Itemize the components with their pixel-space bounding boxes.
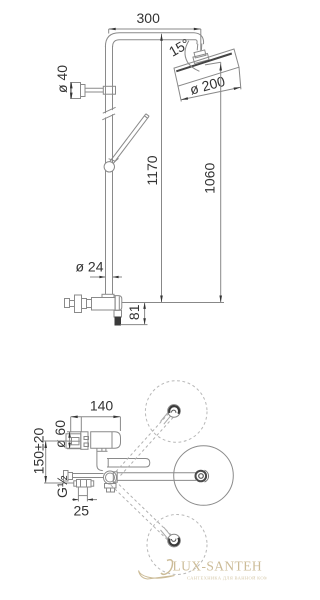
handle step2	[82, 299, 87, 309]
head rim line	[205, 62, 221, 65]
head stub wall right	[200, 44, 202, 51]
top arc outer	[105, 33, 203, 47]
dim 140 arrow left	[71, 416, 78, 419]
dim 1060 arrow top	[219, 64, 222, 71]
dim 25 line right	[87, 499, 97, 501]
dim o200 ext right	[239, 67, 241, 89]
spout arm bottom	[117, 479, 196, 481]
knob o40 arm bottom	[85, 91, 103, 93]
dim 25 arrow right	[87, 498, 93, 500]
head lower inner arc	[171, 539, 175, 542]
head upper inner arc	[171, 410, 175, 413]
dim o200 ext left	[178, 86, 181, 101]
dim 140 line	[71, 416, 121, 418]
dim 300 ext left	[108, 29, 110, 34]
dim 25 ext right	[86, 496, 88, 502]
big circle overhead shower plan	[174, 446, 234, 506]
swivel outer circle	[104, 471, 117, 484]
plan bolt bottom	[84, 443, 89, 447]
handle knob	[65, 299, 70, 308]
svg-text:81: 81	[126, 304, 142, 320]
plan knob inner	[72, 438, 80, 445]
spout arm top	[117, 472, 196, 474]
svg-text:300: 300	[137, 10, 161, 26]
dim 81 arrow down	[143, 318, 146, 324]
swivel inner circle	[106, 473, 115, 482]
plan body end line	[111, 432, 113, 448]
diverter knob o40	[71, 83, 116, 99]
svg-text:150±20: 150±20	[30, 427, 46, 474]
top arc inner	[113, 40, 198, 47]
dim 150pm20 line	[45, 441, 47, 483]
hub nut arc	[205, 470, 209, 482]
pipe break slash 2	[102, 114, 115, 120]
dim 81 bottom ref line	[121, 324, 148, 326]
wand wall right	[113, 116, 149, 164]
swivel mount square left	[107, 488, 111, 492]
arm collar	[113, 472, 117, 483]
svg-text:САНТЕХНИКА ДЛЯ ВАННОЙ КОМНАТЫ: САНТЕХНИКА ДЛЯ ВАННОЙ КОМНАТЫ	[187, 576, 267, 581]
slider block on riser	[103, 86, 115, 94]
holder circle	[104, 162, 114, 172]
mixer body	[92, 298, 116, 311]
dim 300 arrow left	[109, 28, 116, 31]
lower mixer upper assembly	[66, 432, 121, 471]
mixer threaded nipple	[115, 317, 121, 325]
rod bottom	[73, 477, 104, 479]
head ball nut	[193, 53, 209, 63]
dim 1060 arrow bottom	[219, 296, 222, 303]
dim o200 line	[181, 87, 241, 99]
wand cylinder left cap	[107, 459, 109, 468]
dim o60 line	[69, 432, 71, 449]
dim 150pm20 arrow down	[44, 476, 47, 483]
dim o40 arrow up	[70, 82, 73, 88]
mixer collar	[102, 294, 114, 297]
wand ferrule cap	[109, 159, 116, 162]
dim 300	[109, 29, 201, 52]
dim 300 line	[109, 28, 201, 30]
watermark	[139, 559, 283, 581]
plan knob centerline	[67, 440, 80, 442]
dim 300 ext right / head centerline	[200, 29, 202, 52]
svg-text:ø 40: ø 40	[54, 65, 70, 93]
dim 150pm20 ext top	[44, 440, 72, 442]
dim 81 line	[144, 303, 146, 325]
lower union wing right	[91, 481, 94, 486]
knob o40 arm top	[85, 87, 103, 89]
dashed circle lower	[147, 515, 207, 575]
plan neck top line	[97, 450, 108, 452]
lower knob step	[68, 473, 73, 480]
dim 140 arrow right	[113, 416, 120, 419]
dim o24 arrow left	[99, 276, 105, 279]
dashed wand upper line1	[116, 413, 170, 472]
dim o40 line	[70, 82, 72, 98]
wire riser pipe left wall	[105, 46, 107, 294]
head upper wand tip wall 2	[164, 415, 171, 424]
head stub collar	[194, 50, 206, 58]
dim o24 arrow right	[113, 276, 119, 279]
handle flange	[75, 295, 82, 313]
dim 140 ext left	[70, 417, 72, 433]
head lower wand tip wall 2	[164, 527, 171, 536]
svg-text:G½: G½	[54, 475, 70, 498]
lower union wing left	[74, 481, 77, 486]
plan stub left	[101, 448, 103, 451]
hub outer ring	[196, 471, 207, 482]
rod top	[73, 473, 104, 475]
dim o200 arrow right	[234, 87, 241, 90]
dim 300 arrow right	[194, 28, 201, 31]
plan bolt top	[84, 437, 89, 440]
mixer nut below elbow	[114, 310, 122, 317]
hand shower wand	[104, 114, 149, 172]
dashed wand upper line2	[121, 417, 175, 476]
lower union nut	[77, 480, 92, 488]
dashed wand lower line2	[115, 481, 172, 536]
dim o60 ext top	[67, 431, 81, 433]
dim o60 arrow down	[68, 443, 71, 449]
mixer elbow	[114, 296, 122, 311]
svg-text:1170: 1170	[144, 155, 160, 185]
hub inner	[199, 474, 204, 479]
mixer upper view	[65, 294, 122, 325]
plan stub right	[105, 448, 107, 451]
15 degree arc	[185, 41, 199, 72]
svg-text:140: 140	[90, 398, 114, 414]
plan flange	[81, 432, 88, 450]
pipe break slash 1	[103, 107, 116, 113]
lower union square	[78, 487, 87, 496]
handle step1	[87, 300, 92, 308]
dim o24 line left	[90, 276, 105, 278]
svg-text:LUX-SANTEH: LUX-SANTEH	[173, 559, 263, 574]
head upper wand tip wall 1	[161, 412, 169, 421]
dim o60 ext bottom	[67, 448, 81, 450]
mixer elbow inner line	[114, 296, 116, 311]
swivel mount block	[105, 484, 117, 489]
shower head group	[174, 44, 239, 87]
dim o60 arrow up	[68, 431, 71, 437]
dashed wand lower line1	[111, 485, 168, 540]
head lower dark ring	[169, 538, 179, 546]
svg-text:1060: 1060	[202, 163, 218, 194]
lower union and swivel area	[64, 459, 197, 496]
handle stem	[70, 301, 75, 307]
dashed circle upper	[145, 381, 207, 443]
dim 150pm20 arrow up	[44, 441, 47, 448]
lower union nut inner line 2	[86, 480, 88, 488]
dim o40 arrow down	[70, 93, 73, 99]
bottom reference line	[122, 302, 225, 304]
head upper position outer	[168, 405, 181, 418]
holder clamp line	[114, 158, 119, 162]
plan neck	[97, 448, 103, 470]
head slab outline	[174, 49, 239, 86]
head lower wand tip wall 1	[161, 530, 169, 539]
head lower position outer	[168, 534, 181, 547]
dim o24 line right	[113, 276, 122, 278]
mixer elbow inner line 2	[118, 296, 120, 310]
dim 25 arrow left	[73, 498, 79, 500]
lower union nut inner line 1	[80, 480, 82, 488]
head upper dark ring	[169, 406, 179, 414]
dim o200 arrow left	[181, 97, 188, 100]
svg-text:ø 24: ø 24	[75, 258, 103, 274]
lower knob tiny	[64, 471, 69, 482]
knob o40 step	[81, 85, 86, 97]
knob o40 body	[71, 83, 81, 99]
dim 1060 line	[220, 62, 222, 302]
wand head edge	[144, 116, 147, 118]
dim 140 ext mid	[80, 417, 82, 432]
plan knob outer	[66, 434, 81, 448]
plan body	[91, 432, 121, 448]
wand cylinder plan	[107, 459, 150, 468]
dim 1170 arrow top	[160, 34, 163, 41]
dim 140 ext right	[119, 417, 121, 431]
watermark swoosh	[139, 571, 175, 580]
dim 1170 arrow bottom	[160, 296, 163, 303]
dim 25 ext left	[77, 496, 79, 502]
wire riser pipe right wall	[112, 46, 114, 294]
dim 1170 line	[161, 34, 163, 303]
dim 81 arrow up	[143, 303, 146, 309]
wand top cap	[146, 114, 149, 116]
head face thick line	[176, 54, 232, 72]
dim 25 line left	[72, 499, 78, 501]
head stub wall left	[196, 44, 199, 51]
svg-text:25: 25	[74, 502, 90, 518]
pipe break gap white-out	[103, 109, 116, 119]
swivel mount square right	[111, 488, 115, 492]
wand wall left	[110, 114, 146, 162]
watermark swirl icon	[161, 560, 173, 575]
dim 150pm20 ext bottom	[44, 482, 74, 484]
svg-text:ø 60: ø 60	[52, 420, 68, 448]
